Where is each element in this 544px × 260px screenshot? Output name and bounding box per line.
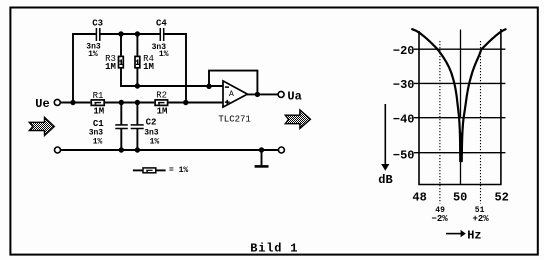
svg-text:C2: C2: [146, 117, 157, 127]
wire bottom rail: [61, 149, 278, 151]
svg-text:dB: dB: [378, 173, 392, 187]
svg-text:1M: 1M: [105, 62, 116, 72]
label 51 +2%: [472, 206, 489, 224]
notch bar: [459, 133, 462, 162]
node C4-R4: [135, 31, 140, 36]
svg-text:1%: 1%: [93, 138, 103, 147]
gridline -50dB: [414, 152, 506, 154]
svg-text:TLC271: TLC271: [218, 115, 250, 125]
svg-text:−30: −30: [393, 78, 415, 92]
wire output: [247, 93, 278, 95]
node R2-plus: [183, 100, 188, 105]
wire inverting input rail: [120, 85, 223, 87]
capacitor C4: [152, 18, 169, 58]
svg-text:1%: 1%: [150, 137, 160, 146]
label 49 -2%: [431, 206, 448, 224]
node C2-R2: [135, 100, 140, 105]
plot y axis 48Hz line: [418, 31, 420, 185]
svg-text:Hz: Hz: [467, 229, 481, 243]
dotted line 49Hz: [439, 41, 441, 204]
resistor R1: [91, 91, 104, 116]
terminal bottom right: [278, 147, 284, 153]
svg-text:R2: R2: [156, 91, 167, 101]
gridline -40dB: [414, 117, 506, 119]
ground: [255, 150, 269, 166]
svg-text:3n3: 3n3: [144, 129, 159, 138]
legend 1% resistor: [133, 166, 189, 175]
capacitor C2: [131, 103, 160, 151]
node R4-minus: [135, 83, 140, 88]
svg-text:48: 48: [412, 191, 426, 205]
node feedback-minus: [206, 84, 211, 89]
svg-text:1M: 1M: [143, 62, 154, 72]
node ground-bottom: [259, 147, 264, 152]
resistor R2: [155, 91, 168, 117]
wire feedback: [209, 71, 257, 95]
signal arrow input: [29, 117, 54, 135]
gridline -20dB: [414, 48, 506, 50]
svg-text:−2%: −2%: [431, 214, 448, 224]
svg-text:−50: −50: [393, 148, 415, 162]
node output: [255, 92, 260, 97]
terminal Ue: [35, 97, 60, 111]
node R1-C1: [119, 100, 124, 105]
resistor R4: [135, 34, 154, 87]
svg-text:1M: 1M: [93, 106, 104, 116]
svg-text:Ua: Ua: [287, 90, 301, 104]
svg-text:1M: 1M: [157, 107, 168, 117]
svg-text:+2%: +2%: [472, 214, 489, 224]
signal arrow output: [285, 110, 310, 129]
resistor R3: [105, 34, 123, 87]
svg-text:C1: C1: [93, 119, 104, 129]
dotted line 51Hz: [480, 41, 482, 204]
node C2-bottom: [135, 147, 140, 152]
svg-text:3n3: 3n3: [89, 129, 104, 138]
Hz axis arrow: [446, 229, 482, 243]
svg-text:C4: C4: [156, 18, 167, 28]
terminal bottom left: [55, 147, 61, 153]
svg-text:−20: −20: [393, 44, 415, 58]
notch response curve: [412, 29, 460, 161]
wire input rail: [61, 102, 224, 104]
svg-text:Bild 1: Bild 1: [250, 241, 298, 255]
dB axis arrow: [378, 104, 392, 187]
svg-text:A: A: [229, 90, 234, 99]
svg-text:1%: 1%: [88, 50, 98, 59]
svg-text:52: 52: [494, 191, 508, 205]
svg-text:= 1%: = 1%: [169, 166, 188, 175]
capacitor C1: [89, 103, 128, 151]
op-amp U1 TLC271: [218, 81, 250, 125]
plot 50Hz center line: [460, 30, 462, 119]
gridline -30dB: [414, 82, 506, 84]
node input-top: [70, 100, 75, 105]
svg-text:50: 50: [453, 191, 467, 205]
plot 52Hz right line: [500, 29, 502, 185]
node C1-bottom: [119, 147, 124, 152]
svg-text:Ue: Ue: [35, 97, 49, 111]
node C3-R3: [118, 31, 123, 36]
svg-text:−40: −40: [393, 113, 415, 127]
wire left vertical: [72, 33, 74, 102]
svg-text:C3: C3: [92, 18, 103, 28]
capacitor C3: [86, 18, 103, 58]
plot x axis: [418, 184, 501, 186]
svg-text:1%: 1%: [159, 50, 169, 59]
svg-text:R1: R1: [93, 91, 104, 101]
wire top rail: [72, 33, 187, 35]
wire right vertical: [185, 33, 187, 102]
terminal Ua: [278, 90, 302, 104]
